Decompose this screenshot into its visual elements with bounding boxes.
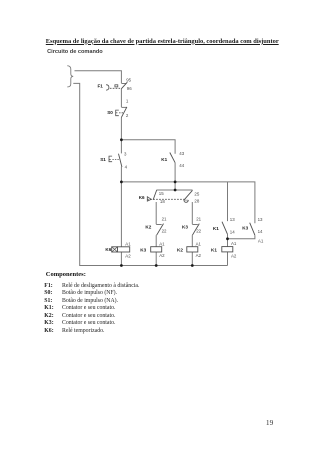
svg-text:K1: K1 [161,157,167,162]
svg-text:A1: A1 [231,241,237,246]
svg-text:13: 13 [230,217,235,222]
svg-text:18: 18 [160,199,165,204]
svg-text:43: 43 [179,151,184,156]
svg-text:K2: K2 [177,248,183,253]
svg-text:S1: S1 [100,157,106,162]
svg-text:25: 25 [194,191,199,196]
svg-text:21: 21 [196,217,201,222]
svg-text:21: 21 [162,217,167,222]
svg-text:3: 3 [124,152,127,157]
svg-text:A1: A1 [258,239,264,244]
svg-text:K6: K6 [139,195,145,200]
svg-text:2: 2 [126,113,129,118]
svg-text:A1: A1 [125,241,131,246]
svg-text:K6: K6 [105,247,111,252]
svg-text:A1: A1 [196,242,202,247]
svg-text:A2: A2 [159,253,165,258]
svg-text:A2: A2 [231,253,237,258]
svg-text:K1: K1 [211,247,217,252]
svg-text:96: 96 [127,86,132,91]
svg-text:14: 14 [258,229,263,234]
svg-text:K3: K3 [242,226,248,231]
svg-text:K3: K3 [182,225,188,230]
svg-text:K1: K1 [213,226,219,231]
svg-text:22: 22 [162,229,167,234]
svg-text:A2: A2 [125,253,131,258]
svg-text:15: 15 [159,191,164,196]
svg-text:22: 22 [196,229,201,234]
svg-text:4: 4 [125,165,128,170]
svg-text:95: 95 [126,77,131,82]
svg-text:K3: K3 [140,248,146,253]
svg-text:F1: F1 [98,84,104,89]
svg-text:13: 13 [258,217,263,222]
svg-text:A1: A1 [159,242,165,247]
svg-text:14: 14 [230,229,235,234]
svg-text:K2: K2 [145,225,151,230]
svg-text:A2: A2 [196,253,202,258]
svg-text:28: 28 [194,199,199,204]
svg-text:44: 44 [179,163,184,168]
svg-text:1: 1 [126,99,129,104]
svg-text:S0: S0 [107,110,113,115]
